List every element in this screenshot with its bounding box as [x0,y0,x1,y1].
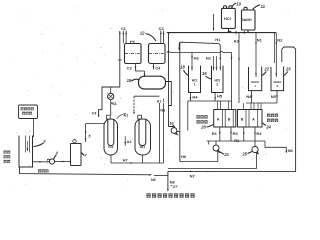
label C4b [92,112,97,116]
vertical feed arrow x213 [213,14,215,31]
pump 25 discharge [256,153,258,169]
svg-text:4: 4 [55,150,59,155]
svg-text:H6: H6 [181,154,187,159]
label 27 leader [171,184,179,189]
HCl col1 drain + H4 [190,93,199,102]
label N7 [190,173,196,178]
node N2 label [277,37,283,42]
svg-text:11: 11 [261,4,266,9]
label A2 + arrow [124,136,131,146]
label 23 leader [284,67,292,76]
label 21 leader [219,152,229,158]
riser pipes C1 [122,31,127,44]
svg-text:16: 16 [169,120,174,125]
label R1 [212,131,218,136]
svg-text:C4: C4 [155,66,161,71]
tank 11 (NaOH storage) [242,7,256,30]
svg-text:NaOH: NaOH [274,80,282,84]
riser x119.8 [98,31,122,118]
label 19 leader [202,71,212,79]
control box (vacuum gauge) [19,105,38,119]
HCl column 2 inlet pipes [213,56,222,71]
NaOH col2 drain + N5 [271,91,278,103]
svg-text:N2: N2 [277,37,283,42]
recirculation header y141 [207,140,266,142]
seawater feed tank 2 [19,136,33,168]
svg-text:C1: C1 [121,26,127,31]
control box drop line [33,119,35,138]
downcomer x168.5 [168,33,170,127]
bus link segment [151,175,168,182]
tank 10 outlet line [228,28,230,32]
svg-text:31: 31 [113,102,117,106]
label C4 + drain arrow [153,64,161,71]
label 25 leader [241,151,252,156]
scan speckle noise [6,7,289,195]
text anion membrane [267,114,278,122]
svg-text:R4: R4 [256,131,262,136]
pump 16 [171,128,177,135]
svg-text:A1: A1 [157,99,162,103]
label R2 [234,138,240,143]
svg-text:A2: A2 [127,140,132,144]
vessel 15 (surge drum) [139,76,166,89]
tank 2 outlet [33,161,50,163]
caption text [147,193,195,197]
svg-text:H3: H3 [194,55,200,60]
svg-text:HCl: HCl [224,16,231,21]
pump 21 discharge [217,151,219,162]
label H3 + feed arrow [191,53,199,71]
HCl col2 drain + H5 [214,93,223,102]
svg-text:5: 5 [88,134,91,138]
svg-text:N3: N3 [160,109,165,113]
node N1 label [257,38,263,43]
riser pipes C2 [160,31,165,44]
label 5 [88,134,91,138]
vessel bottom drains [111,155,164,164]
label 15 leader [127,78,139,83]
waste text [38,169,49,172]
label 24 leader [262,123,271,130]
NaOH column 2 [271,67,284,91]
left bottom bus [20,167,153,176]
pump 4 to filter 6 [55,161,71,163]
pump 4 [47,159,54,164]
svg-text:A: A [252,117,255,121]
NaOH column 1 [249,67,262,91]
dosing line 5 [85,124,87,142]
label 11 leader [253,4,266,10]
label 16 leader [169,120,175,128]
svg-text:H1: H1 [215,37,221,42]
pump 16 discharge [177,131,180,133]
label 10 leader [232,1,242,7]
header right drop [265,141,287,153]
svg-text:27: 27 [172,184,178,189]
svg-text:NaOH: NaOH [242,18,252,22]
label 31 [111,102,117,107]
label 3 leader [34,139,47,147]
svg-text:R2: R2 [234,138,240,143]
svg-text:R3: R3 [233,131,239,136]
cross line y52.5 [167,51,233,109]
right bottom bus [168,171,296,173]
pipes caustic line to stack 2 [244,103,262,110]
tank 11 outlet line [247,30,249,33]
svg-text:H7: H7 [123,158,128,162]
label A4 [157,99,164,104]
A3 feed pipe [238,33,240,103]
svg-text:7: 7 [84,153,87,158]
label C1 [121,26,127,31]
label 12 leader [140,31,156,41]
label 22 leader [262,67,270,76]
svg-text:25: 25 [241,151,247,156]
label 18 leader [180,65,188,76]
bridge line to H2 [178,42,221,60]
label 4 leader [54,150,59,159]
bus hop [228,31,232,32]
membrane stack 20 [214,110,236,128]
label N8 [170,180,175,184]
inlet line into 15 [136,71,146,77]
box 13a (upper left tank) [125,41,142,63]
node H1 label [215,37,221,42]
svg-text:H4: H4 [192,94,198,99]
svg-text:N7: N7 [190,173,196,178]
label R4 [256,131,262,136]
svg-text:A: A [217,117,220,121]
svg-text:3: 3 [43,139,46,144]
svg-text:N4: N4 [246,94,252,99]
feed into 5B4 [133,96,159,114]
vessel 5A2 neck [107,115,111,119]
membrane stack 24 [238,110,263,128]
label C3 + drain arrow [127,64,137,72]
svg-text:A1: A1 [123,114,128,118]
N2 feed pipe [274,33,277,77]
svg-text:5A2: 5A2 [108,145,114,149]
svg-text:N1: N1 [257,38,263,43]
svg-text:10: 10 [236,1,241,6]
text cation membrane [197,115,208,123]
dilute return line y168.5 [168,168,257,170]
svg-text:B: B [228,117,231,121]
svg-text:22: 22 [263,67,269,72]
seawater inlet text [4,151,11,164]
verticals x159.5 x163.5 [160,103,164,163]
label N6 [288,148,294,153]
svg-text:23: 23 [285,67,291,72]
svg-text:N6: N6 [151,178,156,182]
pump 21 [209,141,220,152]
stack 1 bottom stubs [219,127,232,141]
svg-text:C3: C3 [127,66,133,71]
label 7 leader [81,153,87,158]
stack 2 bottom stubs [243,127,256,141]
pump 14 [108,87,114,100]
svg-text:15: 15 [127,78,132,83]
svg-text:18: 18 [180,65,185,70]
pump 16 suction [169,127,175,128]
svg-text:N6: N6 [288,148,294,153]
svg-text:N5: N5 [271,94,277,99]
brine collect line y161.6 [180,161,218,163]
svg-text:R1: R1 [212,131,218,136]
label C2 [159,26,165,31]
NaOH col1 drain + N4 [246,91,252,103]
label R3 [233,131,239,136]
label H7 [123,158,128,162]
svg-text:21: 21 [223,152,229,157]
vessel 5B4 [135,119,151,155]
label A1 + arrow [117,113,128,118]
pump 25 [252,141,258,154]
svg-text:24: 24 [265,125,271,130]
svg-text:NaOH: NaOH [251,80,259,84]
svg-text:B: B [241,117,244,121]
svg-text:12: 12 [140,31,145,36]
line y123.6 [86,123,104,125]
svg-text:H5: H5 [217,93,223,98]
svg-text:C2: C2 [159,26,165,31]
N1 feed pipe [255,33,257,77]
vessel 5B4 neck [138,115,142,119]
svg-text:2: 2 [276,84,278,88]
svg-text:1: 1 [194,83,196,87]
svg-text:H2: H2 [206,55,212,60]
label H6 [181,154,187,159]
label N3b [160,109,165,113]
node A3 label [234,38,240,43]
svg-text:5B4: 5B4 [140,145,146,149]
pump 14 feed into 5A2 [110,100,112,116]
outlet of 15 to downcomer [166,82,172,106]
svg-text:C4: C4 [92,112,97,116]
svg-text:2: 2 [216,83,218,87]
svg-text:19: 19 [202,71,207,76]
pipes acid line to stack 1 [218,101,229,110]
svg-text:1: 1 [254,84,256,88]
tank 10 (HCl storage) [222,6,236,29]
product takeoff arrow [167,171,169,191]
label H2 [206,55,212,60]
svg-text:20: 20 [200,125,206,130]
caustic collect line y103 [246,102,277,104]
downcomer x179.8 [179,42,181,162]
label 20 leader [200,124,214,130]
HCl column 1 [189,66,201,93]
box 13b (upper right tank) [149,44,166,64]
vessel 5A2 [104,119,118,155]
acid collect line y101 [188,101,232,131]
feed bus line y33 [167,31,276,34]
right loop pipe [282,47,296,171]
HCl column 2 [212,66,224,93]
filter 6 [71,140,82,166]
